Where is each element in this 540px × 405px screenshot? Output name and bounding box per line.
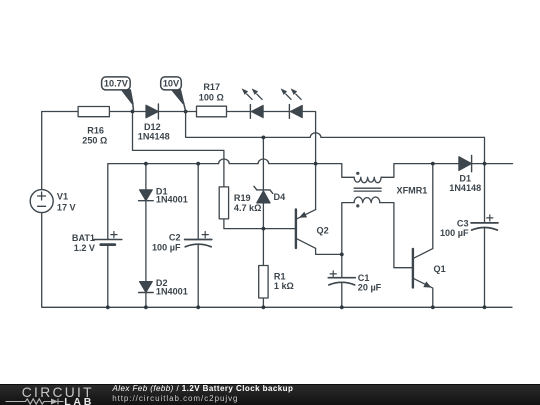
LED LED1 — [242, 88, 264, 118]
svg-text:C3: C3 — [457, 218, 469, 228]
wire D4 anode to R1 top — [262, 203, 264, 266]
wire R17 to LED1 — [227, 111, 251, 113]
node second rail LED emitter — [314, 162, 318, 166]
transformer XFMR1 — [354, 172, 381, 208]
wire D1 branch top — [145, 164, 147, 190]
wire second rail battery plus net with hops — [108, 159, 354, 240]
wire R19 bottom to Q2 base — [224, 219, 296, 229]
wire xfmr top coil right lead to D1 — [381, 164, 459, 178]
svg-text:1 kΩ: 1 kΩ — [274, 281, 294, 291]
resistor R16 — [78, 107, 109, 117]
capacitor C3 — [471, 215, 498, 230]
wire D4 branch vertical — [262, 137, 264, 190]
svg-text:1.2 V: 1.2 V — [74, 243, 95, 253]
resistor R17 — [197, 106, 227, 117]
wire D1 cathode to output stub — [472, 163, 513, 165]
wire C2 bottom — [197, 244, 199, 307]
wire BAT1 bottom — [107, 245, 109, 308]
svg-text:R19: R19 — [234, 193, 251, 203]
svg-text:100 µF: 100 µF — [440, 228, 469, 238]
footer url — [112, 395, 238, 403]
svg-text:17 V: 17 V — [57, 203, 76, 213]
wire D1 to D2 — [145, 201, 147, 282]
node second rail D1 branch — [144, 162, 148, 166]
svg-text:1N4148: 1N4148 — [449, 183, 481, 193]
node rail C2 — [196, 305, 200, 309]
transistor Q1 NPN — [413, 249, 432, 288]
svg-text:V1: V1 — [57, 192, 68, 202]
wire xfmr bottom coil right lead to Q1 base — [380, 203, 413, 268]
svg-text:250 Ω: 250 Ω — [82, 136, 107, 146]
node Q2 base R1 — [262, 227, 266, 231]
wire Q2 emitter diagonal — [296, 210, 316, 220]
transistor Q2 PNP — [296, 209, 307, 248]
node rail R1 — [262, 305, 266, 309]
node rail Q1 emitter — [431, 305, 435, 309]
svg-text:100 Ω: 100 Ω — [199, 92, 224, 102]
wire node 10.7V branch to R19 — [133, 112, 224, 187]
node Q2 collector C1 — [340, 253, 344, 257]
node second rail C2 branch — [196, 162, 200, 166]
battery BAT1 — [94, 232, 122, 245]
svg-text:4.7 kΩ: 4.7 kΩ — [234, 203, 262, 213]
node rail C3 — [483, 305, 487, 309]
svg-text:R17: R17 — [203, 82, 220, 92]
node D1 right cathode — [483, 162, 487, 166]
wire Q1 collector up to D1 anode net — [413, 164, 433, 259]
wire Q2 collector to C1 node — [296, 238, 342, 254]
svg-text:100 µF: 100 µF — [152, 242, 181, 252]
resistor R19 — [219, 187, 228, 219]
wire top rail left vertical from V1 — [42, 112, 78, 190]
capacitor C1 — [328, 271, 355, 285]
node rail D2 — [144, 305, 148, 309]
node Q1 collector — [431, 162, 435, 166]
svg-text:R16: R16 — [87, 126, 104, 136]
wire C3 branch — [484, 164, 486, 223]
wire xfmr bottom coil left lead to C1 — [342, 203, 354, 278]
svg-text:XFMR1: XFMR1 — [397, 185, 428, 195]
node 10V junction — [184, 110, 188, 114]
wire R1 bottom to ground rail — [262, 298, 264, 307]
wire Q1 emitter to rail — [413, 278, 433, 307]
wire LED2 output down to Q2 emitter node — [302, 112, 315, 210]
node 10.7V junction — [131, 110, 135, 114]
wire D12 to R17 — [158, 111, 196, 113]
annotation 10.7V — [102, 77, 134, 111]
footer byline — [113, 385, 294, 393]
svg-text:20 µF: 20 µF — [358, 282, 382, 292]
svg-text:LAB: LAB — [64, 396, 94, 405]
svg-text:10.7V: 10.7V — [104, 79, 129, 89]
svg-text:1N4001: 1N4001 — [156, 195, 188, 205]
wire V1 bottom to rail — [42, 213, 512, 307]
node rail BAT1 — [106, 305, 110, 309]
wire R16 to D12 — [109, 111, 145, 113]
resistor R1 — [259, 266, 268, 299]
diode D12 — [146, 104, 159, 119]
node rail C1 — [340, 305, 344, 309]
svg-text:C2: C2 — [169, 232, 181, 242]
svg-text:Q2: Q2 — [317, 225, 329, 235]
diode D2 1N4001 — [139, 282, 154, 293]
voltage source V1 — [30, 190, 53, 213]
capacitor C2 — [185, 232, 212, 247]
node top-mid rail D4 branch — [262, 136, 266, 140]
LED LED2 — [281, 88, 303, 118]
wire C3 bottom — [484, 227, 486, 307]
footer bar — [0, 384, 540, 405]
svg-text:C1: C1 — [358, 273, 370, 283]
wire C1 bottom — [341, 282, 343, 307]
svg-text:10V: 10V — [163, 79, 180, 89]
annotation 10V — [161, 77, 186, 111]
svg-text:1N4148: 1N4148 — [138, 131, 170, 141]
svg-text:D4: D4 — [274, 192, 287, 202]
diode D1 right 1N4148 — [459, 155, 472, 171]
logo schematic squiggle — [6, 399, 64, 405]
svg-text:BAT1: BAT1 — [72, 233, 95, 243]
wire LED1 to LED2 — [263, 111, 289, 113]
diode D1 left 1N4001 — [139, 190, 154, 201]
svg-text:1N4001: 1N4001 — [156, 287, 188, 297]
wire node 10V branch: top-mid rail with hop — [186, 112, 485, 164]
svg-text:Q1: Q1 — [434, 264, 446, 274]
wire C2 branch top — [197, 164, 199, 240]
wire D2 to rail — [145, 293, 147, 308]
zener diode D4 — [254, 186, 273, 203]
